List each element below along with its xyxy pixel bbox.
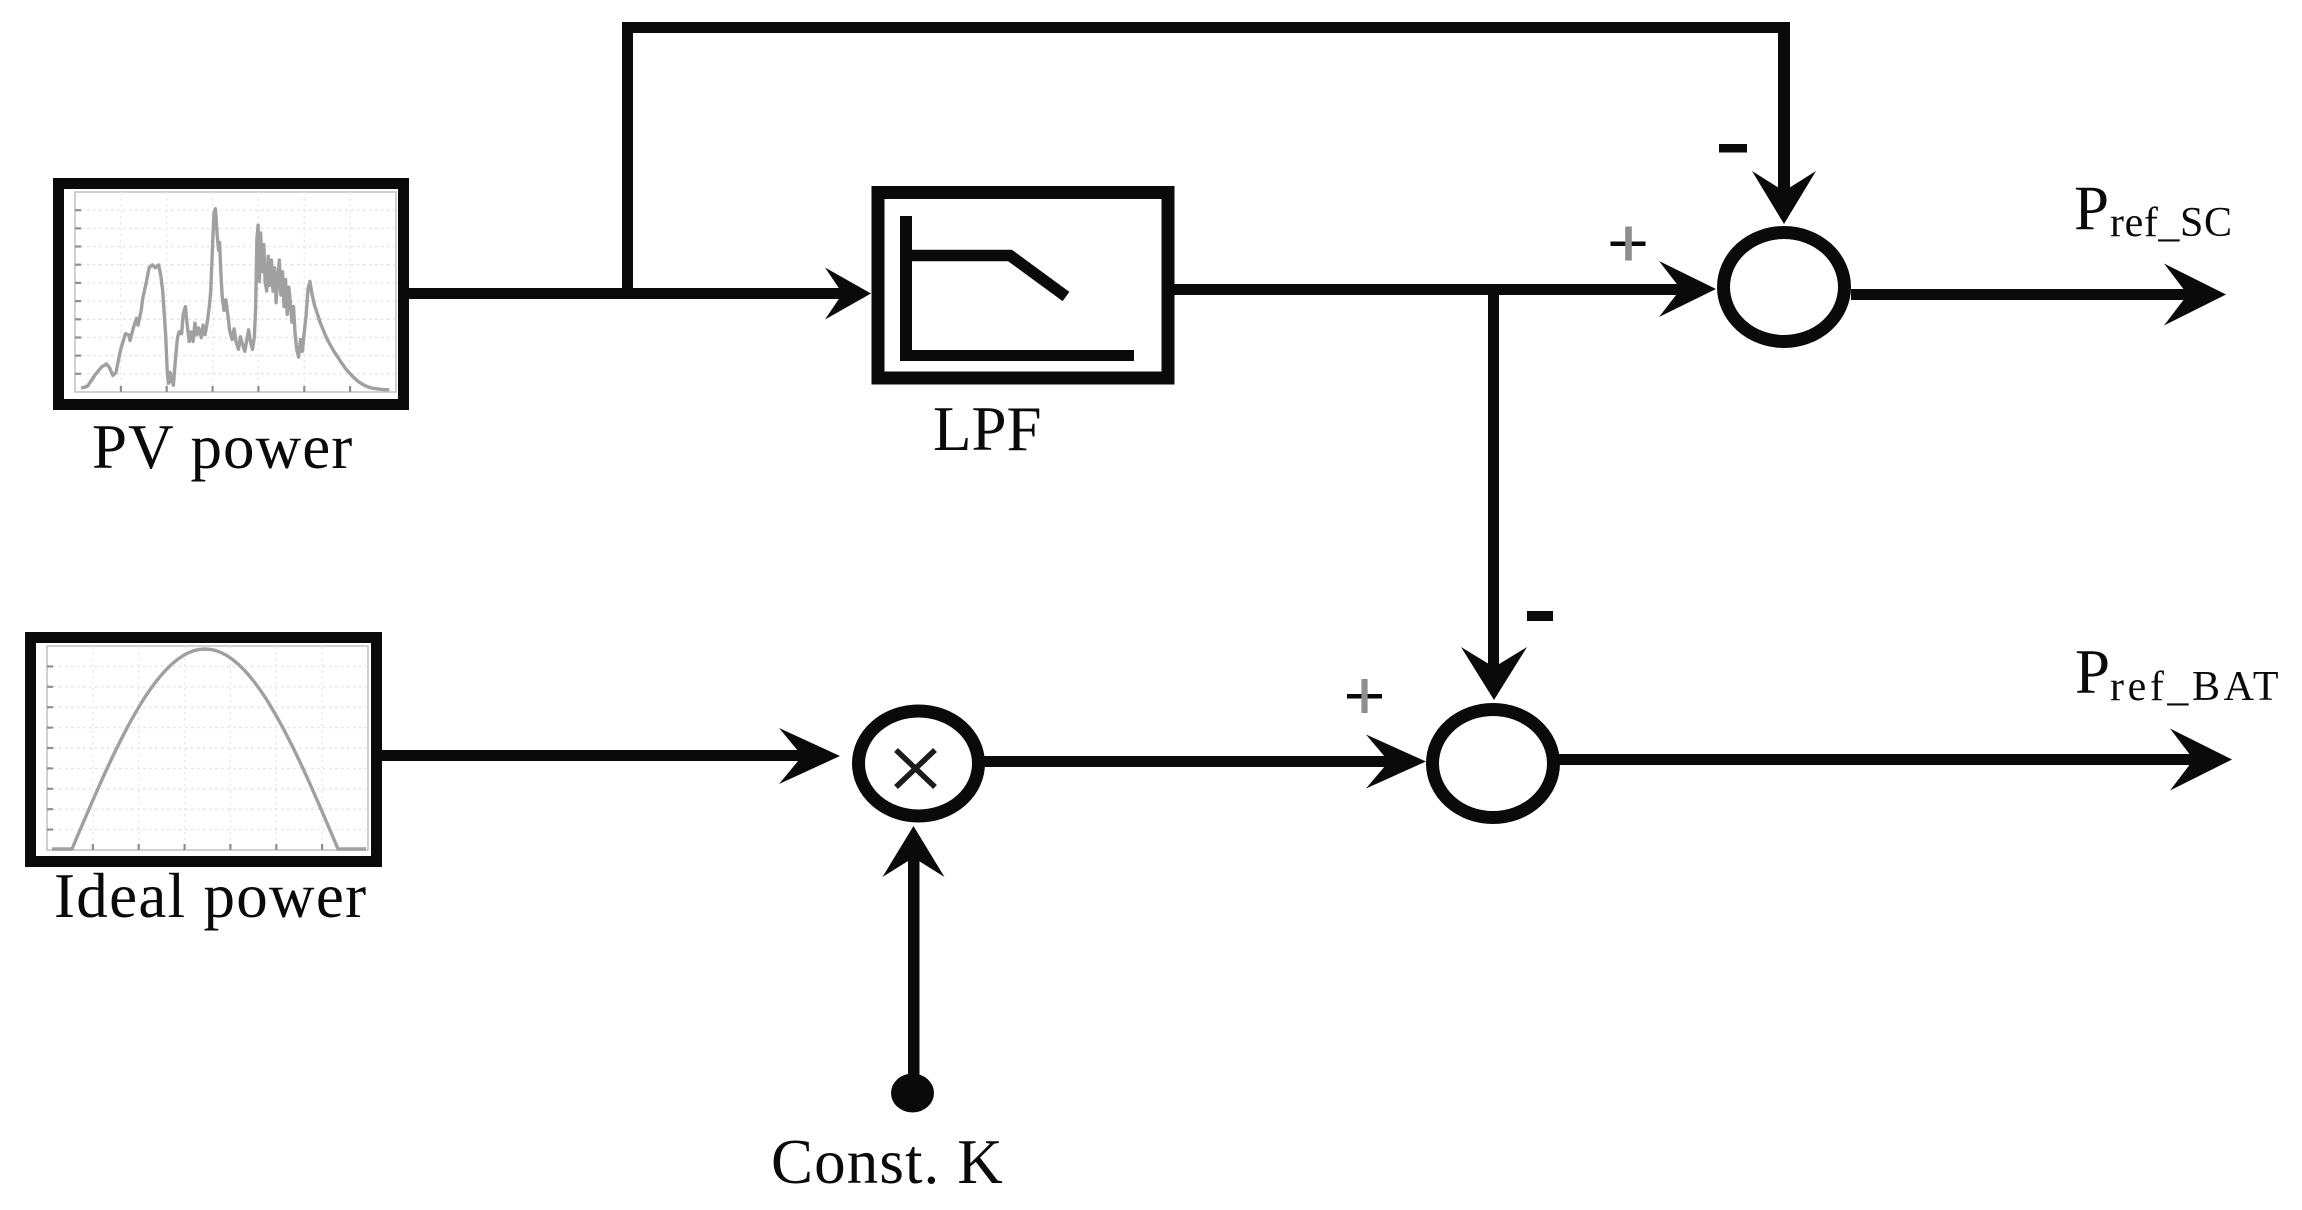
branch wire down to S2 [1488,284,1499,671]
arrowhead Pref_SC output [2164,264,2226,326]
svg-text:P: P [2074,174,2109,244]
svg-text:Ideal power: Ideal power [54,861,367,931]
plus sign S1 [1611,227,1646,261]
summing junction S1 [1724,233,1845,342]
label Pref_BAT [2075,637,2282,710]
arrowhead into S2 top [1461,647,1527,700]
Ideal plot grid [47,646,368,850]
feedback wire vertical left [622,22,633,299]
wire S2 output [1556,754,2198,765]
times symbol [896,750,935,787]
multiplier M1 [859,711,979,816]
arrowhead into S1 left [1659,261,1716,317]
svg-text:ref_BAT: ref_BAT [2110,664,2282,710]
feedback wire vertical right [1778,22,1790,195]
LPF axes [900,216,1134,361]
block Ideal power [31,638,377,862]
ideal power curve [52,649,366,849]
arrowhead into multiplier bottom [883,826,945,877]
svg-text:LPF: LPF [933,394,1042,464]
wire PV to LPF [406,288,848,299]
arrowhead into summing junction S1 top [1752,171,1816,224]
plus sign S2 [1347,679,1382,713]
block PV power [59,184,404,405]
arrowhead into S2 left [1366,735,1426,789]
svg-text:PV power: PV power [92,412,353,482]
feedback wire top horizontal [622,22,1790,33]
svg-text:Const. K: Const. K [771,1127,1004,1197]
node Const K dot [891,1074,934,1113]
LPF response curve [911,256,1066,297]
svg-text:ref_SC: ref_SC [2110,200,2233,246]
wire Ideal to multiplier [379,750,806,761]
svg-text:P: P [2075,637,2110,707]
wire LPF to S1 [1174,284,1685,295]
wire multiplier to S2 [982,756,1392,767]
wire Const K to multiplier [908,854,920,1093]
minus sign S1 [1719,144,1747,153]
wire S1 output [1851,289,2192,300]
PV plot grid [75,192,396,392]
arrowhead into multiplier left [779,728,840,784]
minus sign S2 [1527,611,1553,621]
block LPF [878,193,1168,379]
arrowhead into LPF [825,268,871,320]
PV power curve [81,209,389,390]
summing junction S2 [1433,710,1554,818]
label Pref_SC [2074,174,2233,247]
arrowhead Pref_BAT output [2170,729,2232,791]
